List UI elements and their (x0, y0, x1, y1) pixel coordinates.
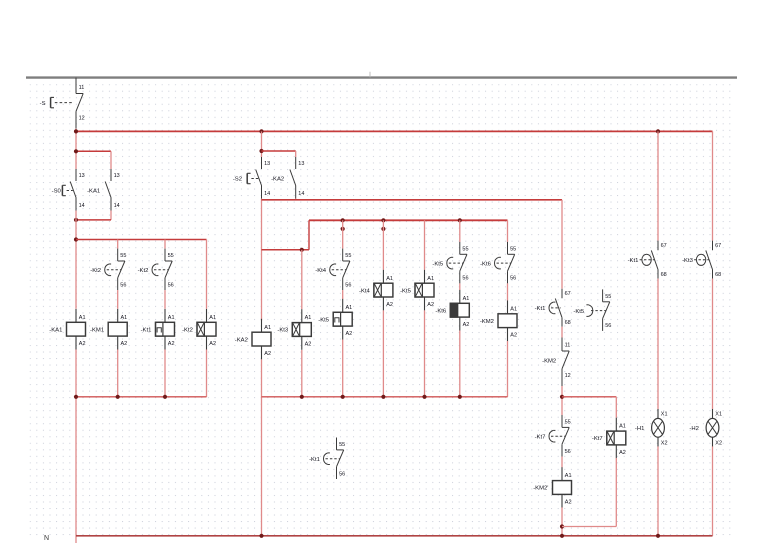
wire x76 stub from supply rail (75, 78, 77, 81)
timer coil -Kt1 (141, 309, 175, 350)
svg-text:A1: A1 (79, 315, 86, 321)
wire x76 from -S to bus (75, 129, 77, 169)
svg-text:-Kt6: -Kt6 (435, 308, 447, 314)
wire x424 lower (424, 310, 426, 396)
node g2bot-x302 (300, 395, 304, 399)
wire x459 mid (459, 283, 461, 290)
contactor coil -KM2' (533, 467, 571, 508)
wire x562 upper (561, 200, 563, 289)
timer coil -Kt2 (182, 309, 216, 350)
svg-text:14: 14 (114, 203, 120, 209)
wire y397 to Kt7 branch (562, 396, 616, 398)
wire x342 mid (342, 290, 344, 299)
wire x616 upper (615, 397, 617, 418)
node x562-y397 (560, 395, 564, 399)
relay coil -KA1 (49, 309, 85, 350)
svg-text:56: 56 (168, 282, 174, 288)
node x76-y151 (74, 149, 78, 153)
svg-text:68: 68 (565, 320, 571, 326)
wire x342 upper (342, 220, 344, 248)
node bus2-x459 (458, 218, 462, 222)
svg-text:-S2: -S2 (233, 177, 242, 183)
timer coil -Kt3 (277, 309, 311, 350)
svg-text:A2: A2 (121, 341, 128, 347)
svg-text:12: 12 (79, 116, 85, 122)
svg-text:14: 14 (264, 191, 270, 197)
svg-text:A2: A2 (427, 302, 434, 308)
node bus-x261 (259, 129, 263, 133)
wire x206 to group1 bottom (206, 350, 208, 397)
wire x712 upper (712, 131, 714, 240)
svg-text:A1: A1 (386, 276, 393, 282)
wire x261 to N rail (261, 359, 263, 535)
wire y250 link (262, 249, 310, 251)
svg-text:-H2: -H2 (689, 426, 699, 432)
timed NC contact -Kt5 (55/56) (432, 242, 468, 284)
lamp -H1 (X1/X2) (635, 409, 668, 447)
svg-text:55: 55 (120, 253, 126, 259)
timed NO contact -Kt3 (67/68) lamp2 (682, 241, 721, 279)
wire x76 down to coil KA1 (75, 211, 77, 309)
timer coil -Kt5b (400, 270, 434, 311)
svg-text:A1: A1 (209, 315, 216, 321)
svg-text:A2: A2 (305, 341, 312, 347)
svg-text:A1: A1 (168, 315, 175, 321)
node x76-y220 (74, 218, 78, 222)
svg-text:67: 67 (661, 243, 667, 249)
node g1bot-x76 (74, 395, 78, 399)
svg-text:55: 55 (339, 442, 345, 448)
node g1bot-x165 (163, 395, 167, 399)
svg-text:55: 55 (510, 246, 516, 252)
timed NC contact -Kt2 (55/56) over Kt1 (138, 249, 174, 291)
wire x76 to N rail (75, 350, 77, 543)
timed NC contact -Kt4 (55/56) (315, 249, 351, 291)
wire y526 return (562, 526, 616, 528)
svg-text:13: 13 (79, 173, 85, 179)
svg-text:X1: X1 (661, 411, 668, 417)
wire main control bus L (76, 130, 713, 132)
wire x712 mid (712, 279, 714, 410)
wire x507 lower (507, 341, 509, 397)
contactor coil -KM1 (90, 309, 127, 350)
svg-text:X2: X2 (661, 440, 668, 446)
svg-text:-Kt6: -Kt6 (480, 261, 492, 267)
svg-text:-KM2: -KM2 (480, 319, 494, 325)
pushbutton NO -S2 (13/14) (233, 157, 270, 199)
svg-text:-Kt2: -Kt2 (182, 327, 193, 333)
wire x111 lower stub (110, 211, 112, 220)
wire x712 lower (712, 446, 714, 535)
node g2bot-x424 (422, 395, 426, 399)
svg-text:-Kt4: -Kt4 (315, 268, 327, 274)
svg-text:A2: A2 (346, 331, 353, 337)
svg-text:A1: A1 (427, 276, 434, 282)
node x342-y229 (341, 227, 345, 231)
svg-text:A2: A2 (264, 351, 271, 357)
wire x117 stub (117, 240, 119, 249)
svg-text:55: 55 (462, 246, 468, 252)
wire x111 upper stub (110, 151, 112, 169)
svg-text:68: 68 (715, 272, 721, 278)
svg-text:14: 14 (79, 203, 85, 209)
svg-text:56: 56 (339, 471, 345, 477)
wire x261 from bus (261, 131, 263, 157)
svg-text:-KM2: -KM2 (542, 358, 556, 364)
node g2bot-x459 (458, 395, 462, 399)
wire x507 mid (507, 283, 509, 300)
wire x383 lower (382, 310, 384, 396)
svg-text:12: 12 (565, 373, 571, 379)
wire group2 bus (309, 219, 508, 221)
wire group2 feed (262, 199, 563, 201)
timer coil -Kt5 (318, 299, 352, 340)
node x302-y250 (300, 248, 304, 252)
timed NO contact -Kt1 (67/68) (535, 289, 571, 327)
svg-text:-Kt5: -Kt5 (318, 317, 330, 323)
wire x295 lower stub (295, 199, 297, 200)
svg-text:-S0: -S0 (52, 189, 62, 195)
svg-text:56: 56 (510, 276, 516, 282)
svg-text:A1: A1 (346, 305, 353, 311)
svg-text:56: 56 (565, 449, 571, 455)
wire x562 mid3 (561, 457, 563, 468)
svg-text:A1: A1 (264, 325, 271, 331)
wire x165 stub (164, 240, 166, 249)
svg-text:-S: -S (40, 101, 46, 107)
wire x616 lower (615, 458, 617, 527)
relay contact NO -KA2 (13/14) (271, 157, 304, 199)
wire x658 upper (657, 131, 659, 240)
spare timed NC contact -Kt1 (55/56) (309, 438, 345, 480)
svg-text:-Kt1: -Kt1 (535, 306, 546, 312)
svg-text:-Kt7: -Kt7 (592, 436, 603, 442)
svg-text:13: 13 (114, 173, 120, 179)
svg-text:67: 67 (565, 291, 571, 297)
svg-text:-Kt5: -Kt5 (432, 261, 444, 267)
svg-text:68: 68 (661, 272, 667, 278)
svg-text:67: 67 (715, 243, 721, 249)
node N-x658 (656, 534, 660, 538)
svg-text:A2: A2 (79, 341, 86, 347)
svg-text:A2: A2 (510, 333, 517, 339)
contactor coil -KM2 (480, 300, 517, 341)
wire x507 upper (507, 220, 509, 242)
node x562-y526 (560, 524, 564, 528)
wire x295 upper stub (295, 151, 297, 157)
spare timed NC contact -Kt5 (55/56) (573, 289, 611, 331)
svg-text:A1: A1 (121, 315, 128, 321)
node g1bot-x117 (116, 395, 120, 399)
svg-text:56: 56 (345, 282, 351, 288)
wire branch1 top (76, 150, 111, 152)
svg-text:A2: A2 (209, 341, 216, 347)
svg-text:A2: A2 (168, 341, 175, 347)
svg-text:13: 13 (264, 161, 270, 167)
wire x117 mid (117, 290, 119, 309)
node bus2-x383 (381, 218, 385, 222)
node bus2-x342 (341, 218, 345, 222)
wire x342 lower (342, 340, 344, 397)
svg-text:-KA1: -KA1 (87, 189, 100, 195)
timed NC contact -Kt7 (55/56) (535, 415, 571, 457)
pushbutton NO -S0 (13/14) (52, 169, 85, 211)
wire x459 lower (459, 331, 461, 397)
wire x562 mid2 (561, 386, 563, 415)
svg-text:-KM1: -KM1 (90, 327, 104, 333)
svg-text:56: 56 (462, 276, 468, 282)
timer coil -Kt6 (435, 290, 469, 331)
wire x562 to N rail (561, 507, 563, 535)
node N-x261 (259, 534, 263, 538)
node bus-x76 (74, 129, 78, 133)
svg-text:-KA1: -KA1 (49, 327, 62, 333)
svg-text:11: 11 (79, 85, 85, 91)
svg-text:-Kt1: -Kt1 (141, 327, 152, 333)
wire neutral rail N (76, 535, 713, 537)
svg-text:55: 55 (168, 253, 174, 259)
relay contact NO -KA1 (13/14) (87, 169, 120, 211)
wire x309 riser (308, 220, 310, 250)
node x261-y151 (259, 149, 263, 153)
svg-text:X1: X1 (715, 411, 722, 417)
svg-text:-Kt3: -Kt3 (682, 258, 694, 264)
svg-text:56: 56 (605, 323, 611, 329)
svg-text:14: 14 (298, 191, 304, 197)
svg-text:-Kt7: -Kt7 (535, 434, 546, 440)
svg-text:A1: A1 (619, 424, 626, 430)
wire x383 upper (382, 220, 384, 269)
svg-text:-Kt5: -Kt5 (400, 288, 412, 294)
svg-text:55: 55 (565, 419, 571, 425)
top supply rail (gray) (26, 76, 737, 78)
wire x302 down (301, 250, 303, 309)
timer coil -Kt7 (592, 418, 626, 459)
wire branch2 top (262, 150, 296, 152)
timed NO contact -Kt1 (67/68) lamp1 (628, 241, 667, 279)
wire x459 upper (459, 220, 461, 242)
svg-text:55: 55 (605, 294, 611, 300)
node x76-y239 (74, 237, 78, 241)
svg-text:13: 13 (298, 161, 304, 167)
svg-text:A1: A1 (565, 473, 572, 479)
node g2bot-x383 (381, 395, 385, 399)
svg-text:-Kt2: -Kt2 (90, 268, 101, 274)
node bus-x658 (656, 129, 660, 133)
svg-text:A1: A1 (510, 306, 517, 312)
svg-text:-Kt3: -Kt3 (277, 328, 289, 334)
wire x165 to group1 bottom (164, 350, 166, 397)
svg-text:A2: A2 (565, 499, 572, 505)
svg-text:A1: A1 (463, 296, 470, 302)
timed NC contact -Kt6 (55/56) (480, 242, 516, 284)
svg-text:X2: X2 (715, 440, 722, 446)
wire x165 mid (164, 290, 166, 309)
timer coil -Kt4 (359, 270, 393, 311)
svg-text:-KA2: -KA2 (271, 177, 284, 183)
svg-text:55: 55 (345, 253, 351, 259)
wire x658 mid (657, 279, 659, 410)
node N-x562 (560, 534, 564, 538)
wire x261 down to coil KA2 (261, 199, 263, 321)
svg-text:-Kt1: -Kt1 (309, 457, 320, 463)
lamp -H2 (X1/X2) (689, 409, 722, 447)
svg-text:11: 11 (565, 343, 571, 349)
svg-text:-Kt1: -Kt1 (628, 258, 639, 264)
wire x206 down (206, 240, 208, 309)
svg-text:A2: A2 (386, 302, 393, 308)
svg-text:56: 56 (120, 282, 126, 288)
wire x658 lower (657, 446, 659, 535)
wire x302 to group2 bottom (301, 350, 303, 397)
pushbutton NC -S (11/12) (40, 80, 85, 129)
faint phase mark above rail (369, 72, 371, 78)
wire group1 bottom bus (76, 396, 207, 398)
svg-text:-KA2: -KA2 (235, 337, 248, 343)
wire group2 bottom bus (262, 396, 508, 398)
wire x117 to group1 bottom (117, 350, 119, 397)
wire x562 mid1 (561, 327, 563, 338)
svg-text:A1: A1 (305, 315, 312, 321)
svg-text:-Kt4: -Kt4 (359, 288, 371, 294)
svg-text:A2: A2 (463, 322, 470, 328)
node x383-y229 (381, 227, 385, 231)
svg-text:-KM2': -KM2' (533, 486, 548, 492)
wire branch1 bottom (76, 219, 111, 221)
NC contact -KM2 (11/12) (542, 338, 571, 387)
wire x424 upper (424, 220, 426, 269)
svg-text:A2: A2 (619, 450, 626, 456)
node g2bot-x342 (341, 395, 345, 399)
svg-text:-H1: -H1 (635, 426, 645, 432)
svg-text:-Kt2: -Kt2 (138, 268, 149, 274)
svg-text:-Kt5: -Kt5 (573, 309, 585, 315)
svg-text:N: N (44, 535, 49, 542)
wire group1 bus (76, 239, 207, 241)
timed NC contact -Kt2 (55/56) over KM1 (90, 249, 126, 291)
relay coil -KA2 (235, 319, 271, 360)
